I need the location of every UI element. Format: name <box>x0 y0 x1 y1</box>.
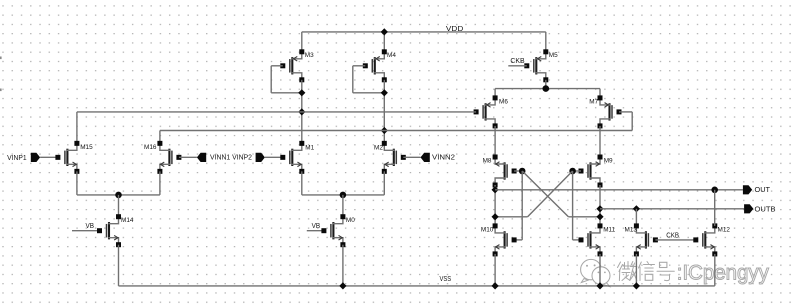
wire VSS rail <box>119 285 715 287</box>
wire VB stub at M0 gate <box>307 230 324 232</box>
junction node cross left <box>492 213 499 220</box>
wire cross diagonal A <box>528 171 573 217</box>
wire M7 drain column <box>599 126 601 157</box>
junction node M8 gate <box>519 168 526 175</box>
wire pair-B tail to M0 drain <box>342 195 344 217</box>
transistor M4 (PMOS) <box>363 49 387 82</box>
port VINP2 <box>256 153 265 162</box>
svg-text:M12: M12 <box>718 227 731 234</box>
wire M14 source to VSS <box>118 245 120 286</box>
svg-text:VINN1 VINP2: VINN1 VINP2 <box>210 152 252 161</box>
junction VSS / M10 tap <box>492 282 499 289</box>
wire net wire-2 horizontal <box>160 130 632 132</box>
wire OUTB line <box>600 208 744 210</box>
wire M4 gate feedback down <box>352 66 354 93</box>
transistor M16 (NMOS) <box>157 141 181 174</box>
wire M8 drain column <box>494 185 496 226</box>
wire M1 source drop <box>301 171 303 195</box>
wire M13 drain from OUTB <box>635 209 637 226</box>
wire VB stub at M14 gate <box>72 230 100 232</box>
wire cross horizontal left <box>495 216 527 218</box>
junction VSS / M0 tap <box>339 282 346 289</box>
svg-text:M5: M5 <box>549 52 558 59</box>
transistor M12 (NMOS) <box>693 223 717 256</box>
svg-text:CKB: CKB <box>666 230 679 239</box>
wire VDD rail <box>302 31 546 33</box>
wire M9-M11 gate vertical <box>572 171 574 240</box>
svg-text:CKB: CKB <box>510 56 524 65</box>
svg-text:M7: M7 <box>589 98 598 105</box>
wire M4 gate feedback left <box>353 65 366 67</box>
wire M3 gate feedback down <box>270 66 272 93</box>
transistor M3 (PMOS) <box>280 49 304 82</box>
svg-text:VSS: VSS <box>440 274 452 283</box>
wire M6 source riser <box>494 89 496 98</box>
junction VDD / M4 tap <box>381 28 388 35</box>
wire pair-A tail to M14 drain <box>118 195 120 217</box>
junction OUTB / M13 tap <box>633 205 640 212</box>
junction M4 drain / wire-2 tap <box>381 127 388 134</box>
transistor M1 (NMOS) <box>280 141 304 174</box>
svg-text:M10: M10 <box>481 227 494 234</box>
junction M4 gate-drain node <box>381 89 388 96</box>
wire net wire-1 M15 drain riser <box>76 112 78 143</box>
screen edge mark 1 <box>0 57 2 60</box>
transistor M13 (NMOS) <box>634 223 658 256</box>
wire M3 gate feedback left <box>271 65 283 67</box>
svg-text:M13: M13 <box>625 227 638 234</box>
wire M11 gate lead left <box>573 239 581 241</box>
wire net wire-1 horizontal <box>77 111 476 113</box>
wire M9 gate lead <box>573 170 581 172</box>
watermark WeChat icon <box>581 259 610 286</box>
svg-text:M3: M3 <box>305 52 314 59</box>
transistor M8 (NMOS) <box>493 155 517 188</box>
svg-text:M4: M4 <box>387 52 396 59</box>
wire VDD drop to M5 source <box>545 32 547 52</box>
junction OUT / M12 tap <box>711 187 718 194</box>
svg-text:VB: VB <box>86 221 95 230</box>
watermark text 号 <box>657 262 674 280</box>
wire M15 source drop <box>76 171 78 195</box>
wire M12 source to VSS <box>714 254 716 286</box>
junction VSS / M13 tap <box>633 282 640 289</box>
wire M2 gate to VINN2 <box>403 156 420 158</box>
port VINP1 <box>31 153 40 162</box>
junction node cross right <box>596 213 603 220</box>
transistor M6 (PMOS) <box>474 95 498 128</box>
watermark text 微 <box>618 262 637 281</box>
wire VINP1 to M15 gate <box>40 156 58 158</box>
junction node OUT at M8 drain <box>492 186 499 193</box>
transistor M9 (NMOS) <box>579 155 603 188</box>
svg-text:OUTB: OUTB <box>755 204 776 213</box>
svg-text:M6: M6 <box>499 98 508 105</box>
wire M5 drain to source rail <box>545 80 547 89</box>
wire M3 drain column <box>301 80 303 144</box>
svg-text:M16: M16 <box>144 144 157 151</box>
wire M16 gate to VINN1 <box>179 156 197 158</box>
transistor M14 (NMOS) <box>97 214 121 247</box>
svg-text:M15: M15 <box>80 144 93 151</box>
junction M3 drain / wire-1 tap <box>298 108 305 115</box>
wire cross diagonal B <box>522 171 568 217</box>
wire M10 gate lead right <box>514 239 522 241</box>
wire VDD drop to M3 source <box>301 32 303 52</box>
wire cross horizontal right <box>568 216 600 218</box>
wire M7 gate drop <box>631 112 633 131</box>
wire M12 drain from OUT <box>714 190 716 226</box>
svg-text::ICpengyy: :ICpengyy <box>677 262 770 285</box>
watermark text 信 <box>639 262 655 281</box>
transistor M2 (NMOS) <box>382 141 406 174</box>
svg-text:VB: VB <box>312 221 321 230</box>
port VINN2 <box>421 153 430 162</box>
svg-text:M14: M14 <box>121 217 134 224</box>
screen edge mark 2 <box>0 89 2 92</box>
transistor M5 (PMOS) <box>524 49 548 82</box>
transistor M0 (NMOS) <box>321 214 345 247</box>
transistor M10 (NMOS) <box>493 223 517 256</box>
wire M7 source riser <box>599 89 601 98</box>
port OUTB <box>744 204 753 213</box>
svg-text:M1: M1 <box>305 145 314 152</box>
junction pair-A tail junction <box>115 192 122 199</box>
junction VSS / M11 tap <box>596 282 603 289</box>
wire M6-M7 source rail <box>495 88 600 90</box>
junction node OUTB at M9 drain <box>596 205 603 212</box>
wire net wire-2 M16 drain riser <box>159 131 161 144</box>
wire M6 drain column <box>494 126 496 157</box>
wire M11 source to VSS <box>599 254 601 286</box>
port VINN1 <box>197 153 206 162</box>
svg-text:VDD: VDD <box>446 24 464 33</box>
wire M4 drain column <box>383 80 385 144</box>
wire CKB stub at M5 gate <box>508 65 527 67</box>
wire M7 gate lead right <box>619 111 632 113</box>
wire M8 gate lead <box>514 170 522 172</box>
wire VDD drop to M4 source <box>383 32 385 52</box>
junction node M9 gate <box>569 168 576 175</box>
transistor M7 (PMOS) <box>598 95 622 128</box>
wire M3 gate feedback right <box>271 92 302 94</box>
transistor M11 (NMOS) <box>579 223 603 256</box>
wire M0 source to VSS <box>342 245 344 286</box>
wire VINP2 to M1 gate <box>265 156 283 158</box>
svg-text:VINP1: VINP1 <box>7 153 27 162</box>
svg-text:OUT: OUT <box>755 185 771 194</box>
junction pair-B tail junction <box>340 192 347 199</box>
wire M2 source drop <box>383 171 385 195</box>
wire M4 gate feedback right <box>353 92 385 94</box>
wire OUT line <box>495 189 743 191</box>
wire M9 drain column <box>599 185 601 226</box>
transistor M15 (NMOS) <box>55 141 79 174</box>
wire M8-M10 gate vertical <box>521 171 523 240</box>
svg-text:M8: M8 <box>483 157 492 164</box>
svg-text:VINN2: VINN2 <box>432 152 455 161</box>
wire M10 source to VSS <box>494 254 496 286</box>
wire pair-B tail horizontal <box>302 194 385 196</box>
wire M16 source drop <box>159 171 161 195</box>
junction M3 gate-drain node <box>298 89 305 96</box>
svg-text:M2: M2 <box>374 145 383 152</box>
svg-text:M11: M11 <box>603 227 615 234</box>
port OUT <box>743 185 752 194</box>
svg-text:M0: M0 <box>346 217 355 224</box>
junction M5 drain junction <box>543 85 550 92</box>
wire M13 source to VSS <box>635 254 637 286</box>
wire pair-A tail horizontal <box>77 194 160 196</box>
svg-text:M9: M9 <box>604 157 613 164</box>
wire CKB wire M13-M12 gates <box>655 239 695 241</box>
